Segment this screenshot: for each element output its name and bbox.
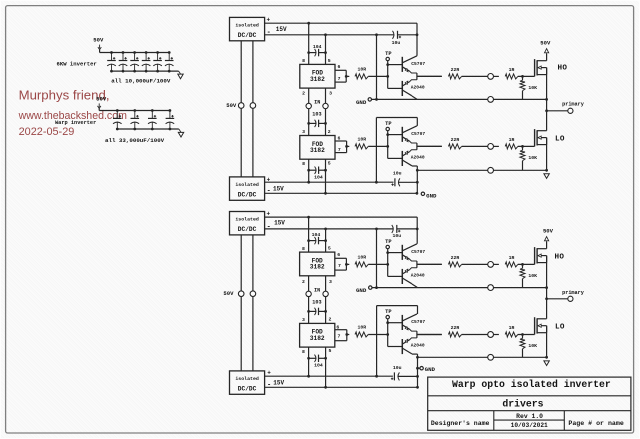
- svg-text:5: 5: [328, 246, 331, 252]
- wire 10R to driver (LO B): [368, 334, 388, 336]
- wire source down / switch node (HO A): [546, 68, 548, 131]
- wire source down / switch node (HO B): [546, 256, 548, 319]
- wire +15 down to collector (HO A): [416, 23, 418, 56]
- junction pin8 tap (U3): [307, 181, 310, 184]
- junction output (U2): [345, 75, 348, 78]
- junction pin5 tap (U2): [324, 33, 327, 36]
- node 50V (HO A): [540, 40, 551, 54]
- wire U2 pin 2 lead: [302, 88, 309, 103]
- connector circle GND rail (LO A): [488, 167, 494, 173]
- connector circle (LO B): [488, 332, 494, 338]
- node 50V input (bank 2): [96, 95, 107, 108]
- svg-text:Designer's name: Designer's name: [431, 420, 490, 427]
- svg-text:10K: 10K: [528, 273, 537, 279]
- svg-text:C5707: C5707: [411, 249, 425, 255]
- wire 50V feed right (B): [252, 235, 254, 371]
- wire 10R to driver (LO A): [368, 145, 388, 147]
- junction output (U6): [345, 263, 348, 266]
- resistor 10K (LO A): [520, 146, 537, 160]
- svg-text:3: 3: [302, 317, 305, 323]
- junction GND rail left (HO B): [375, 286, 378, 289]
- node 50V connector left (A): [226, 102, 244, 109]
- junction 104 left (U3): [307, 169, 310, 172]
- junction 10u right (LO A): [416, 181, 419, 184]
- emitter output node (HO A): [417, 73, 442, 80]
- svg-text:TP: TP: [385, 239, 391, 245]
- svg-text:isolated: isolated: [235, 182, 259, 188]
- test point TP (HO A): [385, 51, 391, 61]
- svg-text:GND: GND: [425, 366, 436, 373]
- wire +15V rail B1: [265, 216, 418, 218]
- svg-text:7: 7: [338, 147, 341, 153]
- svg-text:drivers: drivers: [502, 399, 543, 410]
- DC/DC converter U4 isolated (LO A): [230, 177, 265, 200]
- label pin 3 (U3): [302, 129, 305, 135]
- junction primary tap (B): [545, 297, 548, 300]
- wire base C5707 (HO B): [388, 252, 402, 254]
- node GND connector (HO A): [368, 98, 371, 101]
- resistor 10R (HO B): [355, 254, 368, 267]
- capacitor 10u (HO A): [392, 31, 417, 46]
- wire PNP collector to GND rail (HO A): [412, 96, 417, 99]
- junction 104 right (U7): [324, 357, 327, 360]
- svg-text:10R: 10R: [357, 136, 366, 142]
- svg-text:6KW inverter: 6KW inverter: [57, 60, 97, 67]
- junction 104 left (U2): [307, 51, 310, 54]
- wire source down (LO B): [546, 326, 548, 358]
- wire +15V line (LO B): [265, 375, 393, 377]
- junction 10u right (LO B): [416, 375, 419, 378]
- node GND connector (LO B): [418, 366, 436, 373]
- svg-text:-: -: [267, 29, 271, 37]
- svg-text:22R: 22R: [451, 137, 460, 143]
- label pin 2 (U3): [328, 129, 331, 135]
- junction pin8 tap (U7): [307, 375, 310, 378]
- junction 104 right (U2): [324, 51, 327, 54]
- junction base NPN (HO A): [386, 63, 389, 66]
- wire +15V rail A1: [265, 22, 417, 24]
- emitter output node (LO A): [417, 143, 442, 150]
- wire GND rail (LO A): [417, 169, 546, 171]
- wire U3 output to 10R: [347, 145, 350, 147]
- wire GND rail (HO A): [372, 98, 547, 100]
- svg-text:10R: 10R: [357, 254, 366, 260]
- wire 50V feed left (B): [240, 235, 242, 371]
- wire PNP collector to GND (LO A): [412, 166, 417, 193]
- junction source-GND rail (LO B): [545, 356, 548, 359]
- wire U7 pin 5 lead: [326, 347, 332, 387]
- svg-text:10u: 10u: [393, 365, 402, 371]
- wire -15V rail B1: [265, 228, 393, 230]
- resistor 1R (LO B): [505, 325, 518, 337]
- label +15V output (U8): [267, 370, 284, 390]
- svg-text:10u: 10u: [392, 40, 401, 46]
- wire U2 output to 10R: [346, 75, 349, 77]
- resistor 10R (HO A): [355, 66, 368, 79]
- svg-text:DC/DC: DC/DC: [238, 32, 257, 39]
- opto driver U3 FOD3182 (LO A): [300, 136, 335, 160]
- wire IN to 103 (left A): [308, 109, 310, 136]
- wire U2 pin 3 lead: [326, 88, 333, 103]
- svg-text:3182: 3182: [310, 335, 325, 342]
- wire 1R to gate (HO B): [518, 263, 535, 265]
- svg-text:50V: 50V: [96, 95, 107, 102]
- svg-text:6: 6: [337, 252, 340, 258]
- resistor 1R (HO A): [505, 67, 518, 79]
- emitter output node (HO B): [417, 261, 442, 268]
- svg-text:22R: 22R: [451, 255, 460, 261]
- resistor 10K (HO B): [520, 264, 537, 278]
- capacitor electrolytic (bank1 C1): [107, 51, 116, 72]
- wire primary (A): [547, 110, 568, 112]
- resistor 10R (LO A): [355, 136, 368, 149]
- svg-text:8: 8: [302, 161, 305, 167]
- svg-text:10u: 10u: [393, 171, 402, 177]
- title block frame: [428, 377, 631, 430]
- wire 10K to GND rail (HO B): [522, 279, 524, 288]
- svg-text:7: 7: [338, 76, 341, 82]
- annotation: Murphys friend: [19, 88, 110, 103]
- title text: Warp opto isolated inverter: [452, 379, 611, 390]
- svg-text:TP: TP: [385, 51, 391, 57]
- svg-text:7: 7: [338, 263, 341, 269]
- resistor 10K (HO A): [520, 76, 537, 90]
- svg-text:isolated: isolated: [235, 23, 259, 29]
- mosfet Q HO B: [535, 247, 547, 264]
- svg-text:DC/DC: DC/DC: [238, 191, 257, 198]
- capacitor 10u (LO A): [391, 171, 417, 187]
- wire base C5707 (LO A): [388, 134, 402, 136]
- label +15V output (U4): [267, 176, 285, 195]
- connector circle GND rail (LO B): [488, 354, 494, 360]
- title text: date: [511, 422, 548, 429]
- capacitor electrolytic (bank2 C1): [113, 109, 122, 130]
- svg-text:IN: IN: [314, 288, 320, 294]
- svg-text:2: 2: [328, 129, 331, 135]
- node 50V (HO B): [543, 228, 554, 242]
- junction 10u to +15 (HO B): [416, 228, 419, 231]
- svg-text:104: 104: [314, 174, 323, 180]
- svg-text:all 33,000uF/100V: all 33,000uF/100V: [105, 137, 165, 144]
- wire +15V line (LO A): [265, 181, 394, 183]
- transistor Q C5707 NPN (HO B): [402, 244, 425, 261]
- junction -15V to GND vertical (HO B): [375, 228, 378, 231]
- svg-text:HO: HO: [554, 253, 564, 261]
- capacitor electrolytic (bank1 C5): [153, 51, 162, 72]
- test point TP (LO B): [385, 309, 391, 319]
- svg-text:1R: 1R: [509, 137, 515, 143]
- ground (LO B): [544, 361, 549, 366]
- wire connector to 1R (HO A): [494, 75, 499, 77]
- svg-text:50V: 50V: [93, 37, 104, 44]
- resistor 1R (LO A): [505, 137, 518, 149]
- wire -15V down to GND rail (HO B): [376, 229, 378, 288]
- svg-text:TP: TP: [385, 121, 391, 127]
- mosfet Q HO A: [535, 59, 547, 76]
- wire 50V feed right (A): [252, 41, 254, 177]
- svg-text:103: 103: [312, 299, 321, 305]
- resistor 22R (HO B): [448, 255, 461, 267]
- opto driver U7 FOD3182 (LO B): [300, 323, 335, 347]
- connector circle GND rail (HO B): [488, 285, 494, 291]
- wire base A2040 (HO A): [388, 87, 402, 89]
- wire FOD U6 pin 8 lead: [302, 217, 309, 252]
- wire base C5707 (LO B): [388, 322, 402, 324]
- transistor Q A2040 PNP (HO B): [402, 268, 425, 284]
- wire 10K to GND rail (LO A): [522, 161, 524, 171]
- wire 50V to bank 2 rail: [99, 108, 170, 110]
- wire drain to 50V (HO B): [546, 242, 548, 249]
- opto driver U6 FOD3182: [300, 252, 335, 276]
- wire connector to 1R (HO B): [494, 263, 499, 265]
- label LO (B): [555, 324, 565, 332]
- wire 50V feed left (A): [240, 41, 242, 177]
- wire U7 pin 8 lead: [302, 347, 309, 376]
- transistor Q A2040 PNP (LO B): [402, 338, 425, 354]
- svg-text:GND: GND: [426, 193, 437, 200]
- wire 10R to driver (HO B): [368, 263, 388, 265]
- svg-text:C5707: C5707: [411, 131, 425, 137]
- junction 104 left (U6): [307, 239, 310, 242]
- wire IN to 103 (right A): [325, 109, 327, 136]
- resistor 22R (HO A): [448, 67, 461, 79]
- pins 6/7 (U2): [335, 64, 346, 82]
- svg-text:-: -: [267, 382, 271, 390]
- capacitor electrolytic (bank2 C2): [131, 109, 140, 130]
- capacitor 103 (A): [309, 111, 326, 127]
- wire +15 down to collector (LO B): [417, 306, 419, 314]
- wire +15 riser (LO A): [376, 118, 417, 183]
- capacitor electrolytic (bank1 C2): [119, 51, 128, 72]
- junction gate node (LO A): [521, 145, 524, 148]
- mosfet Q LO A: [535, 129, 547, 146]
- junction gate node (HO B): [521, 263, 524, 266]
- svg-text:5: 5: [328, 58, 331, 64]
- wire TP to bases (LO A): [387, 131, 389, 159]
- svg-text:GND: GND: [356, 99, 367, 106]
- connector circle (LO A): [488, 144, 494, 150]
- junction base NPN (LO A): [386, 133, 389, 136]
- ground (bank 2): [178, 129, 183, 137]
- wire -15V line (LO A): [265, 192, 417, 194]
- connector circle GND rail (HO A): [488, 97, 494, 103]
- svg-text:1R: 1R: [509, 255, 515, 261]
- svg-text:6: 6: [337, 64, 340, 70]
- svg-text:3: 3: [302, 129, 305, 135]
- svg-text:-: -: [267, 223, 271, 231]
- wire TP to bases (HO A): [387, 61, 389, 89]
- label Warp inverter: [55, 120, 96, 126]
- svg-text:3182: 3182: [310, 147, 325, 154]
- junction GND rail left (HO A): [375, 98, 378, 101]
- mosfet Q LO B: [535, 317, 547, 334]
- wire 22R to connector (HO B): [462, 263, 488, 265]
- svg-text:1R: 1R: [509, 325, 515, 331]
- junction 104 right (U3): [324, 169, 327, 172]
- junction -15V to GND vertical (HO A): [375, 33, 378, 36]
- svg-text:+: +: [267, 370, 271, 377]
- junction input (HO B): [386, 263, 389, 266]
- junction source-GND rail (HO B): [545, 286, 548, 289]
- transistor Q A2040 PNP (HO A): [402, 80, 425, 96]
- svg-text:8: 8: [302, 349, 305, 355]
- wire primary (B): [547, 298, 568, 300]
- svg-text:50V: 50V: [543, 228, 554, 235]
- svg-text:all 10,000uF/100V: all 10,000uF/100V: [111, 77, 171, 84]
- junction 104 right (U6): [324, 239, 327, 242]
- svg-text:2: 2: [302, 91, 305, 97]
- pins 6/7 (U7): [335, 325, 347, 341]
- node IN connector right (A): [323, 103, 328, 108]
- svg-text:A2040: A2040: [411, 85, 425, 91]
- svg-text:GND: GND: [356, 287, 367, 294]
- svg-text:50V: 50V: [226, 102, 237, 109]
- junction 104 left (U7): [307, 357, 310, 360]
- svg-text:50V: 50V: [223, 290, 234, 297]
- svg-text:7: 7: [337, 333, 340, 339]
- wire base C5707 (HO A): [388, 64, 402, 66]
- svg-text:10K: 10K: [528, 155, 537, 161]
- svg-text:15V: 15V: [273, 185, 284, 192]
- svg-text:primary: primary: [562, 102, 585, 108]
- svg-text:-: -: [267, 188, 271, 196]
- wire U6 pin 2 lead: [302, 276, 309, 291]
- wire 1R to gate (LO B): [518, 334, 535, 336]
- svg-text:+: +: [266, 210, 270, 217]
- svg-text:22R: 22R: [451, 325, 460, 331]
- svg-text:+: +: [266, 16, 270, 23]
- junction +15 riser (LO B): [375, 375, 378, 378]
- wire PNP collector to GND rail (HO B): [412, 284, 417, 287]
- wire +15 riser (LO B): [377, 306, 418, 377]
- wire driver to 22R (LO A): [417, 145, 442, 147]
- svg-text:isolated: isolated: [235, 376, 259, 382]
- svg-text:HO: HO: [557, 65, 567, 73]
- wire -15V rail A1: [265, 34, 394, 36]
- svg-text:C5707: C5707: [411, 61, 425, 67]
- connector circle (HO B): [488, 262, 494, 268]
- svg-text:10R: 10R: [357, 66, 366, 72]
- node IN connector left (B): [306, 288, 320, 297]
- label pin 2 (U7): [328, 317, 331, 323]
- junction gate node (LO B): [521, 333, 524, 336]
- wire FOD U2 pin 5 lead: [326, 35, 331, 65]
- capacitor electrolytic (bank2 C3): [148, 109, 157, 130]
- capacitor 10u (LO B): [391, 365, 418, 381]
- junction 103 left (A): [307, 122, 310, 125]
- junction pin8 tap (U2): [307, 22, 310, 25]
- node 50V connector right (A): [250, 103, 256, 109]
- svg-text:2022-05-29: 2022-05-29: [19, 126, 75, 138]
- emitter output node (LO B): [417, 331, 442, 338]
- pins 6/7 (U6): [335, 252, 347, 270]
- svg-text:10u: 10u: [392, 233, 401, 239]
- junction 103 left (B): [307, 310, 310, 313]
- annotation: 2022-05-29: [19, 126, 75, 138]
- junction source-GND rail (LO A): [545, 169, 548, 172]
- node primary connector (A): [562, 102, 585, 114]
- opto driver U2 FOD3182: [300, 64, 335, 88]
- capacitor 103 (B): [309, 299, 326, 315]
- wire source down (LO A): [546, 138, 548, 171]
- svg-text:5: 5: [328, 161, 331, 167]
- capacitor electrolytic (bank1 C4): [142, 51, 151, 72]
- node primary connector (B): [562, 290, 585, 302]
- wire driver to 22R (HO A): [417, 75, 442, 77]
- ground (bank 1): [178, 71, 183, 79]
- svg-text:3: 3: [329, 91, 332, 97]
- title text: drivers: [502, 399, 543, 410]
- wire FOD U6 pin 5 lead: [326, 229, 331, 252]
- svg-text:104: 104: [314, 362, 323, 368]
- svg-text:Warp inverter: Warp inverter: [55, 120, 96, 126]
- label GND (HO B): [356, 287, 367, 294]
- junction GND rail tap (LO B): [416, 356, 419, 359]
- node 50V connector right (B): [250, 291, 256, 297]
- wire TP to bases (LO B): [387, 319, 389, 347]
- svg-text:DC/DC: DC/DC: [238, 385, 257, 392]
- junction input (LO A): [386, 145, 389, 148]
- wire 50V to bank 1 rail: [100, 50, 170, 53]
- svg-text:10K: 10K: [528, 343, 537, 349]
- capacitor 10u (HO B): [392, 225, 417, 239]
- svg-text:A2040: A2040: [411, 155, 425, 161]
- transistor Q C5707 NPN (HO A): [402, 56, 425, 73]
- wire IN to 103 (left B): [308, 297, 310, 324]
- svg-text:primary: primary: [562, 290, 585, 296]
- capacitor 104 (U7 supply): [309, 355, 326, 369]
- label 6KW inverter: [57, 60, 97, 67]
- svg-text:2: 2: [302, 279, 305, 285]
- svg-text:10/03/2021: 10/03/2021: [511, 422, 548, 429]
- wire 1R to gate (LO A): [518, 145, 535, 147]
- svg-text:Page # or name: Page # or name: [568, 420, 623, 427]
- wire 10K to GND rail (LO B): [522, 349, 524, 357]
- resistor 22R (LO B): [448, 325, 461, 337]
- DC/DC converter U5 isolated: [230, 212, 265, 235]
- wire +15 down to collector (HO B): [416, 217, 418, 244]
- junction -15 end (LO B): [416, 386, 419, 389]
- test point TP (HO B): [385, 239, 391, 249]
- svg-text:2: 2: [328, 317, 331, 323]
- wire 10R to driver (HO A): [368, 75, 388, 77]
- capacitor electrolytic (bank1 C3): [130, 51, 139, 72]
- junction pin5 tap (U7): [324, 386, 327, 389]
- junction base NPN (LO B): [386, 321, 389, 324]
- wire GND rail (LO B): [418, 356, 547, 358]
- capacitor 104 (U6 supply): [309, 232, 326, 244]
- node 50V connector left (B): [223, 290, 244, 297]
- node IN connector right (B): [323, 291, 328, 296]
- junction GND stub (LO B): [416, 367, 419, 370]
- junction 103 right (B): [324, 310, 327, 313]
- svg-text:LO: LO: [555, 136, 565, 144]
- label all 10,000uF/100V: [111, 77, 171, 84]
- title text: Page # or name: [568, 420, 623, 427]
- DC/DC converter U8 isolated (LO B): [230, 371, 265, 394]
- wire 10K to GND rail (HO A): [522, 91, 524, 100]
- wire base A2040 (HO B): [388, 275, 402, 277]
- svg-text:10R: 10R: [357, 325, 366, 331]
- node 50V input (bank 1): [93, 37, 104, 50]
- wire 22R to connector (LO A): [462, 145, 488, 147]
- junction primary tap (A): [545, 109, 548, 112]
- wire driver to 22R (LO B): [417, 334, 442, 336]
- wire U3 pin 5 lead: [326, 159, 331, 193]
- svg-text:Rev 1.0: Rev 1.0: [516, 413, 543, 420]
- junction source-GND rail (HO A): [545, 98, 548, 101]
- wire -15V down to GND rail (HO A): [376, 35, 378, 100]
